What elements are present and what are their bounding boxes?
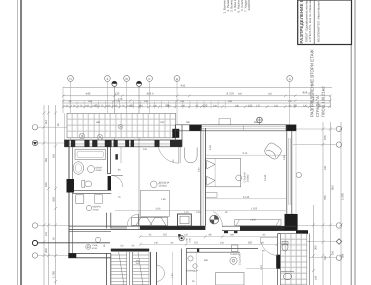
left dimension ticks [43, 112, 58, 284]
svg-text:140: 140 [181, 104, 186, 107]
washbasin top middle [185, 148, 198, 163]
top dimension tick line a [63, 102, 331, 104]
door arc top middle [158, 147, 179, 163]
svg-text:453.5: 453.5 [147, 92, 154, 96]
svg-text:385: 385 [45, 157, 48, 162]
svg-text:115: 115 [139, 104, 143, 107]
bottom middle dim lines [140, 236, 277, 238]
left border thick line [20, 0, 22, 285]
svg-text:5.145: 5.145 [264, 174, 267, 181]
corner column terrace right [172, 129, 179, 138]
corridor top wall [186, 249, 258, 253]
svg-text:ВЪЗЛОЖИТЕЛ: Иван Иванов Стояно: ВЪЗЛОЖИТЕЛ: Иван Иванов Стоянов [317, 0, 321, 42]
laundry room tag [86, 205, 101, 211]
terrace tile grid [65, 113, 176, 140]
bed bedroom [206, 159, 241, 198]
right exterior wall with window [287, 125, 292, 214]
sofa [132, 217, 168, 225]
svg-text:858: 858 [303, 91, 308, 95]
bedroom low sill rect [235, 220, 281, 226]
bottom room bed rect [216, 273, 244, 285]
washbasin oval [73, 162, 84, 175]
svg-text:ПЛОЩ 130.21м2: ПЛОЩ 130.21м2 [321, 86, 326, 117]
svg-text:120: 120 [194, 241, 199, 244]
left wall shaft block [67, 179, 75, 193]
armchair bedroom top right [263, 141, 283, 160]
misc small texts scattered [96, 121, 286, 256]
hall door semicircle [156, 265, 164, 281]
svg-text:170: 170 [116, 100, 121, 103]
bedroom bottom wall [222, 226, 296, 233]
left dimension rotated texts [44, 120, 56, 278]
bottom bathroom door arc [260, 238, 277, 256]
svg-text:20.8м2: 20.8м2 [247, 174, 250, 182]
living room tag [151, 181, 170, 188]
svg-text:175: 175 [256, 104, 261, 107]
svg-text:в УПИ II-576, кв.9 по плана на: в УПИ II-576, кв.9 по плана на гр. [308, 0, 312, 42]
svg-text:320: 320 [332, 250, 335, 255]
living room table rect [140, 190, 169, 216]
left bubble leaders [38, 127, 69, 255]
grid bubble leader lines top [71, 81, 290, 141]
middle vertical wall living/bedroom [201, 128, 206, 226]
svg-text:3.66: 3.66 [156, 207, 161, 210]
top dimension texts [86, 83, 314, 107]
terrace drain symbols [79, 124, 123, 140]
svg-text:ТЕРАСА: ТЕРАСА [230, 253, 240, 256]
svg-text:1.525: 1.525 [251, 208, 258, 211]
svg-text:КОРИДОР: КОРИДОР [187, 270, 199, 273]
left dark axis line [38, 242, 110, 244]
svg-text:1.98: 1.98 [161, 198, 166, 201]
right dimension line 4 [340, 122, 342, 285]
svg-text:285: 285 [88, 100, 93, 103]
section marker bottom [178, 234, 184, 241]
svg-text:440: 440 [86, 92, 91, 96]
svg-text:93.5: 93.5 [308, 92, 314, 96]
bottom-left wing lower wall [68, 253, 111, 257]
round column with crosshair [210, 215, 219, 224]
svg-text:135: 135 [303, 104, 308, 107]
corridor vertical dim line [172, 252, 174, 285]
svg-text:230: 230 [144, 100, 149, 103]
bedroom top wall with window [175, 125, 296, 131]
stairs top wall [111, 249, 149, 252]
extra bottom dim texts [121, 234, 266, 248]
svg-text:БАНЯ: БАНЯ [96, 166, 103, 169]
bedroom tag [236, 172, 267, 182]
top dimension small ticks [62, 95, 332, 109]
svg-text:155: 155 [323, 135, 327, 140]
corridor tag [187, 256, 199, 273]
svg-text:И: И [69, 77, 71, 81]
svg-text:4.625: 4.625 [250, 218, 256, 221]
svg-text:626: 626 [44, 182, 48, 187]
left exterior wall [69, 141, 73, 258]
right dimension line 2 [322, 122, 324, 285]
svg-text:120: 120 [274, 104, 279, 107]
toilet [82, 181, 92, 188]
svg-text:120: 120 [115, 92, 120, 96]
svg-text:3.95: 3.95 [283, 155, 286, 160]
left elevation marker [32, 140, 37, 145]
extra right col texts [315, 165, 345, 280]
svg-text:РАЗПРЕДЕЛЕНИЕ ВТОРИ ЕТАЖ: РАЗПРЕДЕЛЕНИЕ ВТОРИ ЕТАЖ [299, 0, 304, 44]
svg-text:160: 160 [324, 255, 327, 260]
bathroom wall vertical [108, 147, 121, 191]
vertical wall left of stairs [107, 253, 111, 285]
svg-text:3.9м2: 3.9м2 [93, 208, 100, 211]
corridor right wall [182, 249, 187, 285]
svg-text:240: 240 [324, 165, 327, 170]
svg-text:325: 325 [268, 93, 273, 96]
svg-text:Е: Е [148, 77, 150, 81]
grid bubble axis 1 top [68, 76, 293, 82]
section marker 3 (mid height right) [257, 117, 263, 125]
svg-text:1.90: 1.90 [196, 211, 201, 214]
svg-text:140: 140 [154, 241, 159, 244]
svg-text:941: 941 [181, 83, 186, 87]
exterior sill line right [295, 131, 297, 213]
bottom middle dim ticks [139, 235, 279, 246]
svg-text:950: 950 [331, 185, 335, 190]
svg-text:Д: Д [176, 77, 178, 81]
stair flight 2 [133, 252, 149, 285]
svg-text:230: 230 [160, 121, 165, 124]
svg-text:2.40: 2.40 [198, 167, 201, 172]
right grid bubbles [336, 126, 341, 260]
bottom bathroom tiles [281, 234, 310, 285]
right dimension rotated texts [314, 135, 345, 250]
left grid bubble row [32, 125, 37, 259]
svg-text:1.050: 1.050 [341, 193, 345, 200]
left dimension line 3 [55, 105, 57, 285]
chimney ledge rect [219, 119, 231, 125]
hall wall right of stairs [150, 252, 156, 285]
notes text block (rotated lines, cut at top) [223, 0, 252, 14]
svg-text:308: 308 [44, 248, 48, 253]
svg-text:465: 465 [238, 93, 243, 96]
section marker 2 top [136, 81, 141, 230]
stair flight 2 arrow [138, 252, 143, 285]
interior dim line bedroom [206, 209, 286, 211]
svg-text:450: 450 [53, 153, 56, 158]
svg-text:125: 125 [180, 100, 185, 103]
extra top dim texts [66, 93, 322, 108]
svg-text:120: 120 [203, 103, 208, 107]
svg-text:5.00: 5.00 [209, 145, 212, 150]
stair flight 1 arrow [119, 252, 124, 285]
svg-text:120: 120 [45, 231, 48, 236]
laundry bottom wall segment [107, 213, 111, 229]
stair middle rail [129, 252, 132, 285]
svg-text:120: 120 [153, 104, 158, 107]
bottom bathroom toilet [281, 242, 294, 280]
svg-text:795: 795 [323, 195, 327, 200]
right dimension line 1 [312, 205, 314, 285]
svg-text:860: 860 [204, 259, 209, 262]
svg-text:180: 180 [235, 104, 240, 107]
stair flight 1 [111, 252, 127, 285]
svg-text:300: 300 [314, 245, 318, 250]
bathroom door arc [111, 176, 123, 188]
step wall terrace-bedroom [175, 125, 182, 147]
right elevation diamond [336, 239, 341, 244]
right dimension line 3 [330, 96, 332, 108]
top dimension line 1 [63, 87, 332, 89]
title block frame [298, 0, 352, 45]
right border line 1 [350, 0, 352, 285]
svg-text:120: 120 [184, 234, 189, 237]
bathroom room tag [88, 166, 103, 173]
svg-text:А: А [289, 77, 291, 81]
left dimension line 1 [43, 105, 45, 285]
svg-text:145: 145 [315, 275, 318, 280]
top dimension line 2 [63, 95, 331, 97]
top dimension line 3 [63, 100, 331, 102]
svg-text:806: 806 [52, 196, 56, 201]
svg-text:З: З [106, 77, 108, 81]
svg-text:1.10: 1.10 [184, 211, 189, 214]
right dimension ticks [312, 128, 343, 273]
svg-text:113: 113 [44, 120, 48, 125]
svg-text:4.6м2: 4.6м2 [96, 169, 103, 172]
svg-text:1.785: 1.785 [52, 271, 56, 278]
svg-text:120: 120 [288, 100, 293, 103]
bottom bathroom top wall [278, 231, 308, 234]
laundry washing machine [76, 195, 84, 204]
bottom room fixtures [230, 245, 238, 264]
svg-text:ЗАБЕЛЕЖКИ към разпределение вт: ЗАБЕЛЕЖКИ към разпределение втори етаж [247, 0, 251, 11]
bottom bathroom right wall [309, 234, 311, 285]
svg-text:485: 485 [228, 100, 233, 103]
bottom bathroom left wall [276, 234, 280, 285]
svg-text:385: 385 [96, 121, 101, 124]
right bubble leaders [293, 129, 336, 258]
small WC fixtures bottom-left room [86, 237, 101, 249]
extra interior small texts [103, 121, 265, 283]
window tag circle right of bedroom [296, 172, 301, 177]
top wall of left wing with piers and windows [64, 140, 182, 147]
bathroom/laundry separating wall [73, 190, 112, 193]
left dimension line 2 [47, 105, 49, 285]
svg-text:1.20: 1.20 [171, 273, 174, 278]
svg-text:355: 355 [248, 241, 253, 244]
svg-text:210: 210 [213, 104, 218, 107]
right bottom dark corner block [285, 214, 298, 231]
shower square living bottom [178, 214, 192, 226]
svg-text:5.14: 5.14 [243, 152, 248, 155]
door arc bedroom entry [213, 212, 222, 228]
svg-text:260: 260 [230, 234, 235, 237]
svg-text:КОМ.: КОМ. [92, 247, 98, 250]
right border line 2 [354, 0, 356, 285]
interior dim line living [115, 209, 200, 211]
extra left col texts [45, 123, 60, 240]
svg-text:СЪЩ.: СЪЩ. [92, 244, 98, 247]
corridor door arc lower left [127, 214, 138, 225]
svg-text:145: 145 [248, 103, 253, 107]
bathroom interior: bathtub [75, 150, 106, 160]
left dark bubble [32, 240, 37, 245]
section marker 1 top [112, 81, 117, 147]
svg-text:28.6м2: 28.6м2 [159, 185, 168, 188]
top dimension comb verticals [63, 101, 225, 109]
top dimension tick line b [63, 106, 331, 108]
svg-text:120: 120 [260, 241, 265, 244]
svg-text:8.720: 8.720 [227, 92, 234, 96]
svg-text:МОКРО: МОКРО [93, 206, 102, 209]
svg-text:262: 262 [163, 234, 168, 237]
left border thin line [17, 0, 19, 285]
svg-text:310: 310 [220, 241, 225, 244]
grid bubble letters top [69, 77, 290, 81]
svg-text:Ж: Ж [125, 77, 128, 81]
svg-text:585: 585 [342, 253, 345, 258]
svg-text:5.145: 5.145 [243, 196, 250, 199]
living room bottom wall [69, 226, 205, 231]
